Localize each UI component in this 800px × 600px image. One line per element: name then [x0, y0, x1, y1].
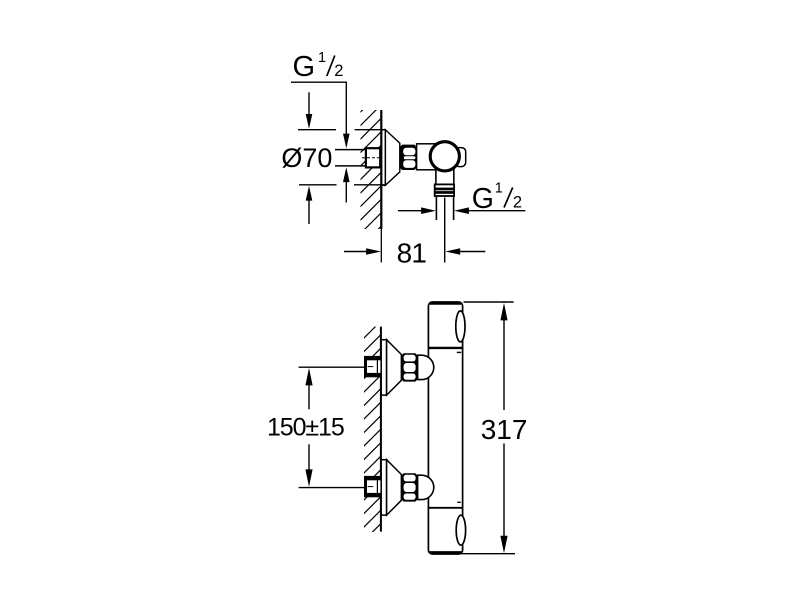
svg-text:G: G: [472, 183, 494, 215]
dimension 150 upper extension line: [299, 366, 365, 368]
valve right cap: [455, 148, 466, 167]
dimension D70 extension line top: [298, 129, 385, 131]
small tick top section: [457, 351, 461, 353]
union nut (top view): [400, 145, 417, 169]
wall face line (top view): [380, 110, 382, 229]
label G1/2 right: [472, 181, 522, 215]
small tick bottom section: [457, 501, 461, 503]
D70 lower arrow: [306, 186, 313, 224]
lower connection inlet dome: [418, 475, 434, 499]
upper connection inlet dome: [418, 355, 434, 379]
escutcheon base plate (top view): [382, 130, 386, 186]
dimension G1/2 top label: [293, 50, 344, 83]
bar bottom cap edge: [430, 551, 461, 554]
svg-text:2: 2: [334, 62, 343, 80]
dimension 81 left arrow: [344, 248, 381, 255]
svg-text:1: 1: [495, 181, 503, 197]
dimension 150 lower arrow: [305, 444, 312, 487]
valve down leg: [436, 158, 454, 184]
dimension D70 extension line bottom: [299, 184, 385, 186]
bar bottom separator line: [428, 507, 462, 509]
hose outlet tube: [436, 196, 453, 220]
svg-text:2: 2: [513, 194, 522, 212]
svg-text:317: 317: [481, 414, 528, 445]
svg-text:Ø70: Ø70: [281, 143, 332, 173]
dimension 317 bottom extension line: [459, 553, 516, 555]
hose coupling ring: [435, 184, 454, 196]
upper connection union nut: [401, 354, 417, 381]
top knob ellipse: [456, 311, 465, 342]
dimension 150 upper arrow: [305, 368, 312, 409]
bar top separator line: [428, 347, 462, 349]
arrow up to pipe bottom: [343, 167, 350, 202]
dimension 317 top extension line: [464, 301, 514, 303]
lower connection thread in wall: [365, 476, 381, 496]
svg-text:150±15: 150±15: [267, 414, 344, 442]
dimension 81 right arrow: [445, 248, 485, 255]
thermostat bar body: [428, 302, 462, 554]
hose G1/2 dimension left arrow: [398, 207, 436, 214]
dimension 317 lower arrow: [500, 444, 507, 554]
escutcheon cone (top view): [385, 130, 399, 186]
svg-text:G: G: [293, 51, 316, 83]
lower connection escutcheon plate: [381, 460, 386, 515]
D70 upper arrow: [306, 92, 313, 129]
pipe thread section in wall: [362, 148, 380, 167]
wall hatch (top view): [361, 110, 382, 229]
wall hatch (bottom view): [364, 327, 381, 532]
valve body circle: [430, 142, 459, 171]
hose G1/2 dimension right arrow: [454, 207, 525, 214]
valve inlet connector: [417, 144, 446, 170]
wall face line (bottom view): [380, 327, 382, 532]
arrow down to pipe top: [343, 134, 350, 149]
svg-text:81: 81: [397, 237, 427, 268]
upper connection thread in wall: [365, 356, 381, 376]
outlet centerline extension: [444, 198, 446, 263]
svg-text:1: 1: [318, 50, 326, 66]
dimension G1/2 top leader line: [291, 82, 347, 134]
dimension 81 left extension: [380, 229, 382, 263]
upper connection escutcheon plate: [381, 340, 386, 395]
bar top cap edge: [430, 302, 461, 305]
supply pipe nipple: [335, 150, 381, 166]
lower connection union nut: [401, 474, 417, 501]
lower connection cone: [387, 460, 402, 515]
bottom knob ellipse: [456, 515, 465, 545]
dimension 317 upper arrow: [500, 303, 507, 410]
dimension 150 lower extension line: [299, 487, 365, 489]
upper connection cone: [387, 340, 402, 395]
